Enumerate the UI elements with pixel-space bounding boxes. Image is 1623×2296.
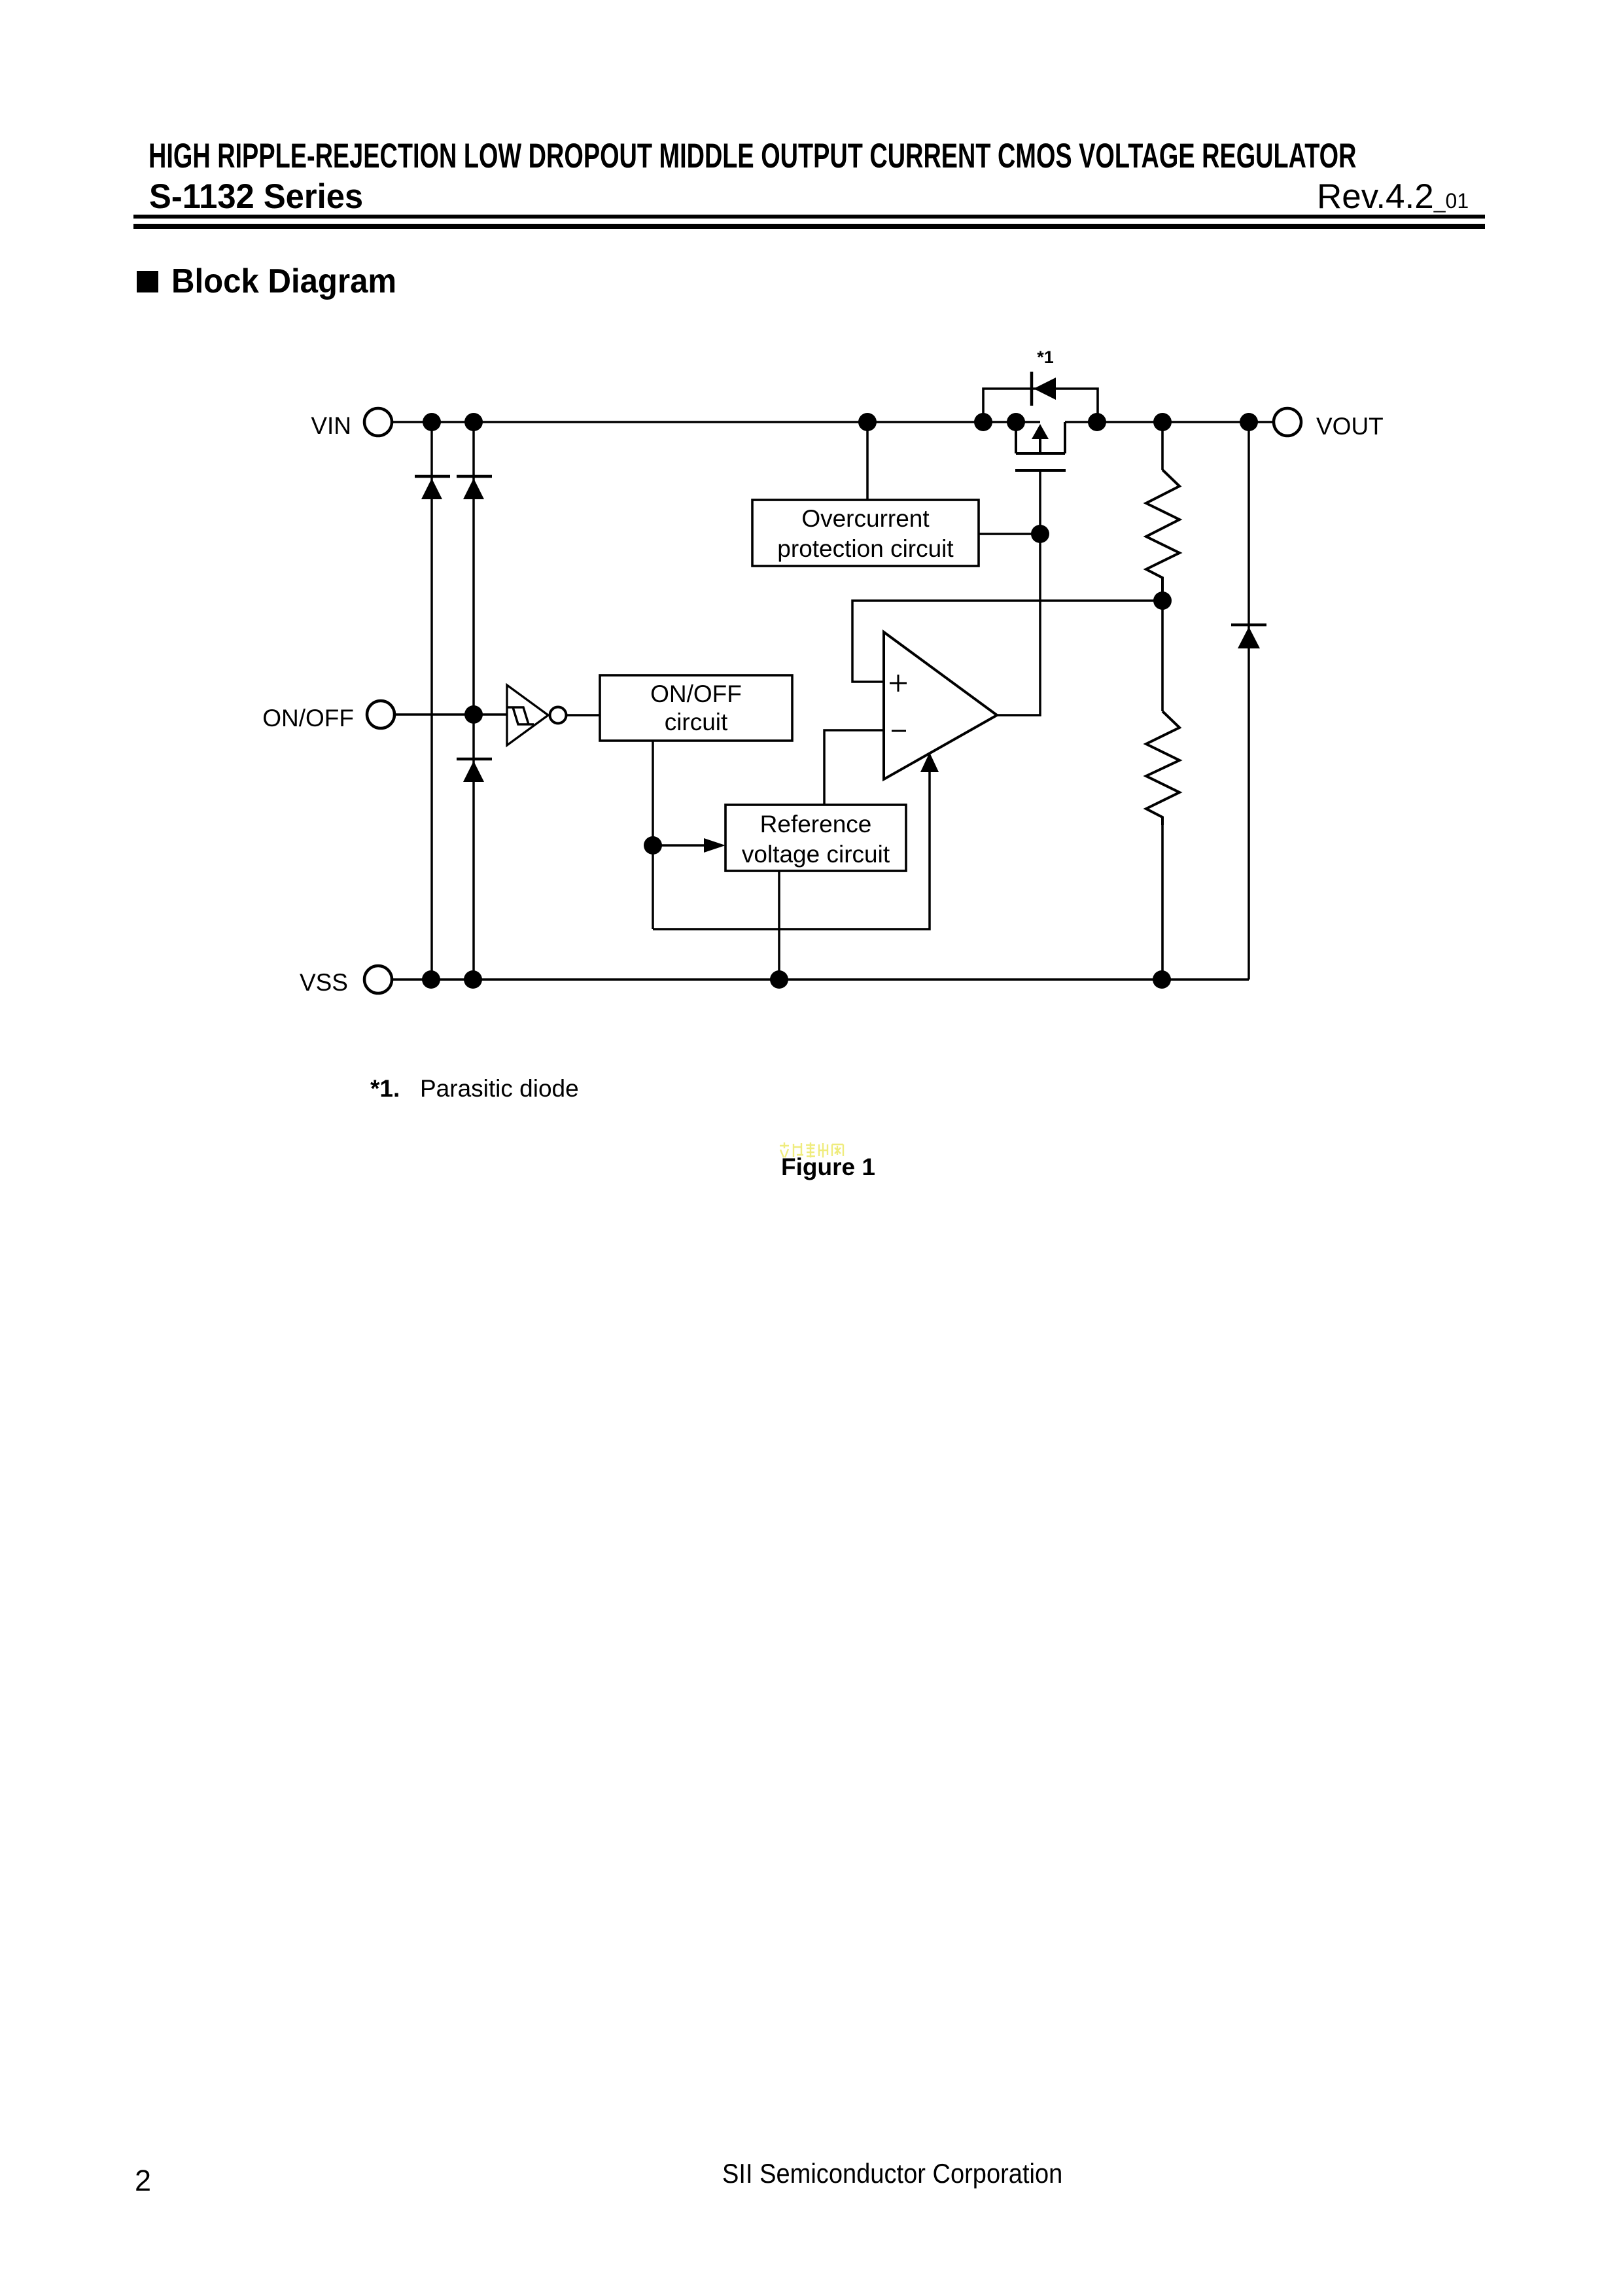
svg-text:VOUT: VOUT <box>1316 413 1384 440</box>
node VIN terminal circle <box>364 408 392 436</box>
junction dot divider top <box>1153 413 1172 431</box>
wire enable to reference circuit <box>653 844 705 847</box>
wire bias run to amplifier <box>653 760 930 929</box>
transistor M1 drain step <box>1064 422 1066 453</box>
op-amp U2 error amplifier <box>884 632 997 779</box>
svg-text:VIN: VIN <box>311 412 351 439</box>
junction dot ON/OFF-ESD2 <box>464 705 483 724</box>
block Overcurrent protection circuit box <box>752 500 979 566</box>
svg-text:VSS: VSS <box>300 969 348 996</box>
wire VSS rail <box>392 978 1249 981</box>
wire overcurrent output to gate node <box>979 533 1040 535</box>
section heading <box>171 262 396 301</box>
revision <box>1317 177 1469 217</box>
transistor M1 source lead <box>1015 422 1017 453</box>
resistor R2 top lead <box>1161 601 1164 711</box>
title line 1 <box>148 136 1356 176</box>
junction dot VOUT column <box>1240 413 1258 431</box>
footer company name <box>722 2158 1062 2189</box>
arrow into reference circuit <box>704 838 725 853</box>
diode D2 (ON/OFF to VIN) cathode bar <box>457 475 492 478</box>
transistor M1 channel bar <box>1016 452 1065 455</box>
svg-text:circuit: circuit <box>665 709 728 735</box>
wire ON/OFF circuit output down <box>652 741 654 929</box>
parasitic diode D4 cathode bar <box>1030 372 1034 406</box>
svg-text:Reference: Reference <box>760 811 872 838</box>
watermark <box>778 1142 845 1159</box>
schmitt trigger U1 inversion bubble <box>550 707 567 724</box>
svg-text:Overcurrent: Overcurrent <box>801 505 930 532</box>
page number <box>135 2164 151 2198</box>
wire VIN rail left segment <box>392 421 1040 423</box>
diode D2 arrow <box>463 478 484 499</box>
junction dot VIN-overcurrent <box>858 413 877 431</box>
diode D1 (VSS to VIN) cathode bar <box>415 475 450 478</box>
wire VOUT rail segment <box>1065 421 1274 423</box>
schmitt trigger U1 triangle <box>507 685 548 745</box>
diode D5 (VSS to VOUT) cathode bar <box>1231 624 1266 627</box>
wire reference output up to inverting input <box>824 730 884 805</box>
op-amp minus sign <box>892 730 906 732</box>
wire overcurrent box top to VIN rail <box>866 422 869 500</box>
title line 2: series name <box>149 177 363 217</box>
wire ESD column 1 (VIN to VSS) <box>430 422 433 980</box>
junction dot VSS-reference <box>770 970 788 989</box>
svg-text:ON/OFF: ON/OFF <box>650 680 742 707</box>
wire parasitic diode bridge <box>983 389 1098 422</box>
figure caption <box>781 1154 875 1181</box>
junction dot VSS-ESD2 <box>464 970 482 989</box>
junction dot gate node <box>1031 525 1049 543</box>
wire output diode column <box>1248 422 1250 980</box>
junction dot bridge left <box>974 413 992 431</box>
wire reference box bottom to VSS <box>778 871 780 980</box>
diode D3 arrow <box>463 761 484 782</box>
wire ON/OFF input <box>394 713 507 716</box>
node VSS terminal circle <box>364 966 392 993</box>
svg-text:protection circuit: protection circuit <box>777 535 954 562</box>
wire feedback from divider tap to non-inverting input <box>852 601 1162 682</box>
junction dot bridge right drain <box>1088 413 1106 431</box>
node ON/OFF terminal circle <box>367 701 394 728</box>
transistor M1 body arrow <box>1032 424 1049 439</box>
junction dot VSS-ESD1 <box>422 970 440 989</box>
resistor R1 zigzag <box>1146 470 1179 601</box>
diode D5 arrow <box>1238 627 1260 648</box>
svg-text:ON/OFF: ON/OFF <box>262 705 354 732</box>
header rule upper <box>133 215 1485 219</box>
transistor M1 body arrow stem <box>1039 439 1041 453</box>
junction dot transistor source <box>1007 413 1025 431</box>
block Reference voltage circuit box <box>725 805 906 871</box>
junction dot divider tap <box>1153 592 1172 610</box>
parasitic diode D4 arrow <box>1034 378 1056 400</box>
note *1 <box>370 1075 400 1103</box>
junction dot VSS-divider <box>1153 970 1171 989</box>
wire schmitt output to ON/OFF circuit <box>567 714 600 716</box>
resistor R2 zigzag <box>1146 711 1179 825</box>
diode D3 (VSS to ON/OFF) cathode bar <box>457 758 492 761</box>
op-amp plus sign <box>890 675 907 692</box>
block ON/OFF circuit box <box>600 675 792 741</box>
resistor R1 top lead <box>1161 422 1164 470</box>
junction dot VIN-ESD2 <box>464 413 483 431</box>
schmitt trigger U1 hysteresis glyph <box>508 707 534 724</box>
header rule lower <box>133 224 1485 229</box>
node VOUT terminal circle <box>1274 408 1301 436</box>
junction dot VIN-ESD1 <box>423 413 441 431</box>
resistor R2 bottom lead <box>1161 825 1164 980</box>
svg-text:*1: *1 <box>1037 347 1054 367</box>
arrow into amplifier bottom <box>920 752 939 772</box>
diode D1 arrow <box>421 478 442 499</box>
wire ESD column 2 (VIN to ON/OFF to VSS) <box>472 422 475 980</box>
svg-text:voltage circuit: voltage circuit <box>742 841 890 868</box>
section bullet square <box>137 271 158 292</box>
transistor M1 gate plate <box>1015 469 1066 472</box>
wire op-amp output to gate <box>997 470 1040 715</box>
junction dot enable branch <box>644 836 662 855</box>
